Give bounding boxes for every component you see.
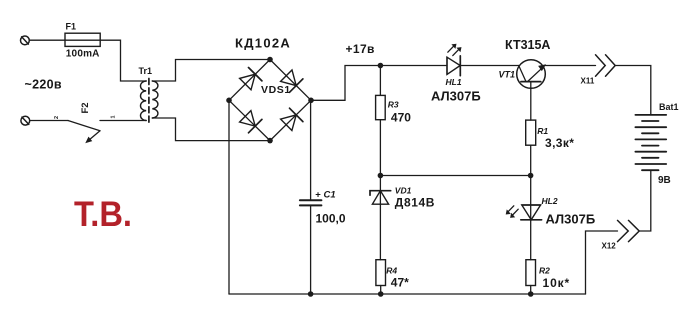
svg-text:HL2: HL2	[542, 196, 558, 206]
svg-text:1: 1	[111, 115, 117, 118]
LED HL1	[447, 44, 461, 75]
node bridge bottom	[267, 138, 273, 144]
node mid rail left	[378, 173, 384, 179]
node bridge top	[267, 57, 273, 63]
svg-text:10к*: 10к*	[543, 276, 571, 290]
transformer Tr1 secondary winding	[152, 81, 158, 118]
wire bridge right to +17v rail	[311, 66, 447, 101]
node +17v R3 tap	[378, 63, 384, 69]
svg-text:X12: X12	[602, 242, 617, 251]
wire X11 to battery top	[615, 66, 651, 115]
wire switch to transformer primary bottom	[100, 120, 146, 122]
svg-text:470: 470	[391, 110, 411, 124]
wire terminal to switch	[30, 120, 68, 122]
svg-text:~220в: ~220в	[25, 78, 62, 92]
wire battery bottom to X12	[639, 170, 651, 231]
resistor R1	[526, 120, 536, 175]
svg-text:КТ315А: КТ315А	[505, 38, 550, 52]
node bridge left	[226, 98, 232, 104]
svg-text:47*: 47*	[391, 276, 409, 290]
svg-text:3,3к*: 3,3к*	[545, 136, 574, 150]
svg-text:R2: R2	[539, 266, 550, 276]
node bus R2	[528, 291, 534, 297]
node bridge right	[308, 98, 314, 104]
svg-text:R3: R3	[388, 100, 399, 110]
transistor VT1	[517, 60, 546, 120]
svg-text:X11: X11	[581, 77, 595, 86]
resistor R4	[376, 260, 386, 294]
diode VDS1 top-right	[281, 70, 303, 92]
svg-text:КД102А: КД102А	[235, 36, 291, 51]
diode VDS1 bottom-left	[240, 111, 262, 133]
wire secondary top to bridge top	[152, 60, 270, 82]
wire emitter to connector X11	[545, 65, 596, 67]
mid rail wire	[380, 175, 530, 177]
svg-text:R4: R4	[386, 266, 397, 276]
capacitor C1	[300, 100, 322, 294]
terminal input top	[21, 36, 30, 45]
svg-text:Д814В: Д814В	[395, 196, 435, 210]
node mid rail right	[528, 173, 534, 179]
fuse F1	[65, 33, 100, 46]
bridge rectifier VDS1 frame	[229, 60, 311, 141]
svg-text:Т.В.: Т.В.	[74, 195, 132, 234]
diode VDS1 top-left	[240, 68, 262, 90]
wire terminal to fuse	[29, 39, 65, 41]
node bus C1	[308, 291, 314, 297]
svg-text:Bat1: Bat1	[659, 102, 679, 112]
svg-text:VT1: VT1	[499, 70, 516, 80]
svg-text:VDS1: VDS1	[261, 84, 291, 96]
battery Bat1	[635, 115, 666, 170]
wire fuse to transformer primary top	[100, 40, 146, 81]
diode VDS1 bottom-right	[281, 108, 303, 130]
zener VD1	[370, 176, 391, 260]
svg-text:АЛ307Б: АЛ307Б	[546, 212, 596, 227]
ground bus wire	[229, 293, 586, 295]
svg-text:+ C1: + C1	[315, 190, 335, 201]
transformer core	[148, 79, 150, 123]
wire HL1 to transistor	[460, 65, 518, 67]
connector X12	[618, 220, 640, 241]
svg-text:+17в: +17в	[346, 42, 375, 56]
svg-text:АЛ307Б: АЛ307Б	[431, 89, 481, 104]
svg-text:9В: 9В	[658, 175, 671, 186]
svg-text:100mA: 100mA	[66, 48, 100, 59]
resistor R3	[376, 66, 386, 176]
svg-text:HL1: HL1	[446, 77, 462, 87]
svg-text:100,0: 100,0	[316, 212, 346, 226]
terminal input bottom	[21, 116, 30, 125]
resistor R2	[526, 260, 536, 294]
svg-text:Tr1: Tr1	[139, 66, 153, 76]
svg-text:2: 2	[54, 116, 60, 119]
svg-text:R1: R1	[537, 126, 548, 136]
connector X11	[596, 55, 616, 76]
transformer Tr1 primary winding	[140, 81, 146, 121]
wire X12 to ground bus	[586, 231, 618, 294]
node bus R4	[378, 291, 384, 297]
svg-text:VD1: VD1	[395, 186, 412, 196]
switch F2	[68, 121, 100, 143]
svg-text:F1: F1	[66, 22, 77, 32]
svg-text:F2: F2	[80, 102, 91, 113]
wire bridge left to ground bus	[228, 100, 230, 294]
wire secondary bottom to bridge bottom	[152, 118, 270, 141]
LED HL2	[506, 176, 541, 260]
